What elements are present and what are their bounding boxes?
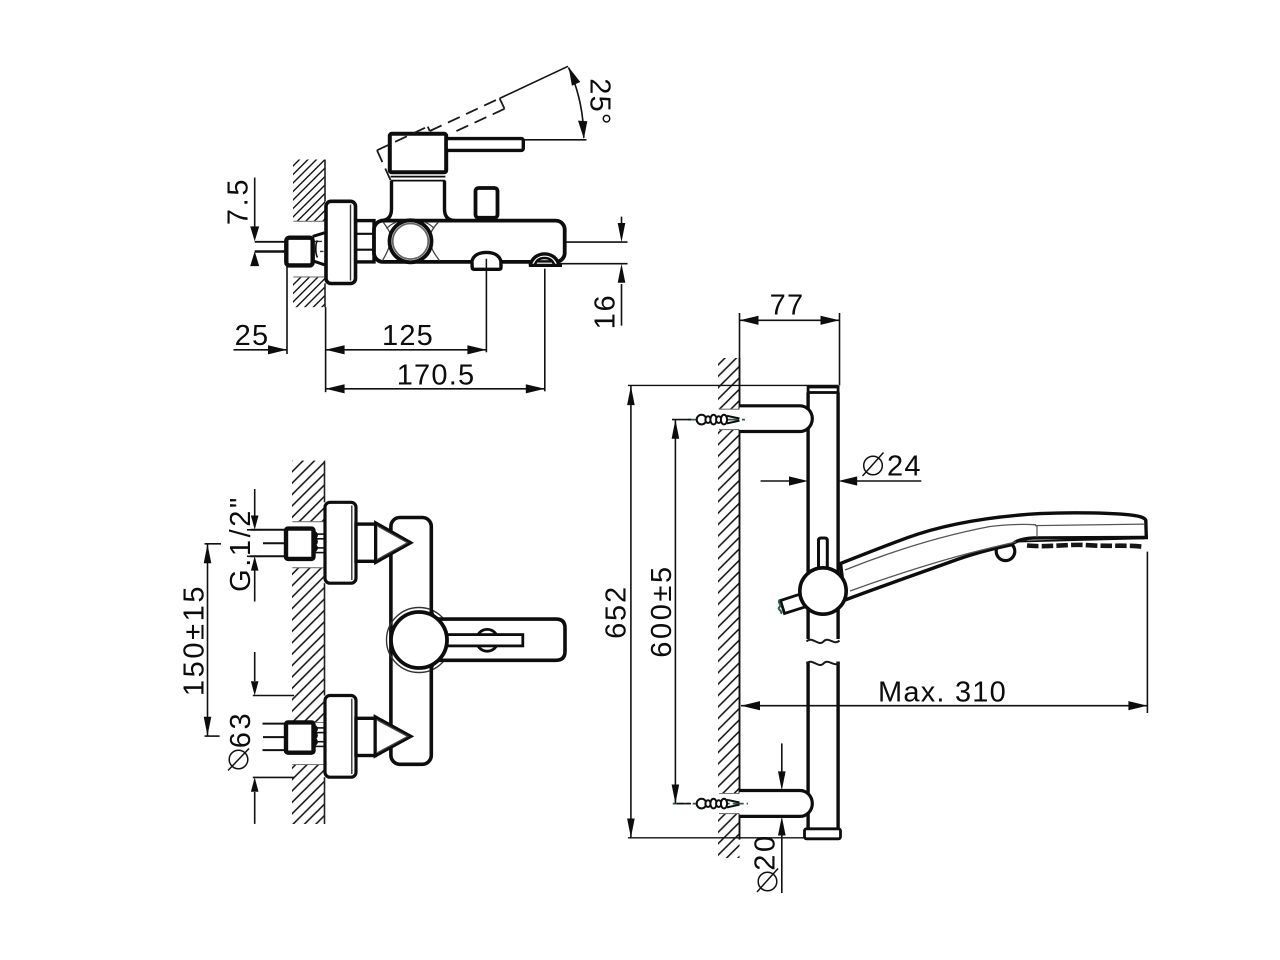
handle hub circle	[391, 612, 447, 668]
label 25deg	[584, 78, 616, 125]
label dia24	[863, 453, 884, 477]
svg-text:G.1/2": G.1/2"	[225, 495, 257, 592]
wall hole edges (side view)	[294, 221, 325, 277]
wall flange 2 (front)	[325, 696, 356, 778]
centerline supply pipe axis	[287, 250, 324, 252]
rail top cap	[808, 387, 838, 393]
svg-text:150±15: 150±15	[179, 584, 211, 696]
inlet cone 2	[375, 717, 411, 756]
centerline mixer body axis	[313, 240, 376, 242]
dim dia24	[761, 480, 922, 482]
sculpted waist thin lines	[383, 222, 440, 261]
spray face plate	[1016, 538, 1145, 546]
label 16	[590, 294, 622, 330]
dim 7.5	[254, 178, 256, 230]
label 600+-5	[646, 564, 678, 657]
slider lever stick	[819, 538, 828, 569]
dim 16	[560, 217, 628, 326]
lever stem	[445, 635, 523, 646]
handle neck	[381, 181, 456, 221]
bath spout outlet	[529, 254, 562, 266]
supply pipe 1	[251, 530, 309, 557]
svg-text:24: 24	[887, 451, 922, 483]
dim 652 extension top	[628, 384, 838, 386]
slider body circle	[800, 568, 846, 614]
svg-text:125: 125	[382, 320, 434, 352]
dim dia20	[781, 743, 783, 893]
outlet extension line	[485, 259, 487, 270]
top wall bracket arm	[740, 406, 813, 432]
diverter knob	[476, 188, 498, 222]
rail tube	[808, 393, 838, 829]
supply pipe 2	[263, 724, 309, 751]
holder stub (handle butt)	[781, 593, 808, 613]
eccentric cone	[313, 233, 325, 265]
hose outlet center line	[485, 259, 487, 270]
screw 1 axis	[688, 419, 748, 421]
svg-text:652: 652	[601, 585, 633, 639]
cartridge boss circles	[390, 220, 432, 262]
lever blade (front)	[432, 619, 565, 660]
union nut	[286, 238, 312, 266]
dim 652 extension bottom	[628, 837, 806, 839]
25 deg arc arrows	[569, 67, 588, 139]
thread lines 1	[315, 534, 325, 553]
escutcheon thin ring	[387, 608, 452, 673]
dim 600+-5	[672, 420, 691, 804]
blade-column fillets	[432, 608, 443, 672]
svg-text:Max. 310: Max. 310	[878, 677, 1007, 709]
head detail lines	[1035, 524, 1144, 537]
handle cap	[390, 134, 446, 173]
wall face line (rail view)	[739, 358, 741, 840]
dim 125	[326, 270, 487, 393]
label 150+-15	[179, 584, 211, 696]
label G.1/2"	[225, 495, 257, 592]
wall hatching (rail view)	[718, 358, 740, 858]
screw 2	[697, 799, 740, 809]
spray face hook loop	[996, 542, 1015, 561]
rail bottom cap	[805, 829, 841, 839]
25 deg dimension rays and arc	[500, 66, 587, 140]
inlet nipple 1	[356, 524, 376, 561]
svg-text:20: 20	[750, 833, 782, 870]
wall face line (front view)	[324, 461, 326, 824]
stub break squiggle	[779, 600, 782, 614]
body rear nipple block	[356, 221, 374, 262]
union nut 2 (front)	[286, 722, 317, 752]
dashed tilted handle (25 deg)	[377, 98, 505, 180]
lever screw ring	[476, 629, 498, 651]
lever bar	[446, 139, 523, 151]
wall flange 1 (front)	[325, 502, 356, 583]
dim 652	[630, 386, 632, 838]
dim Max310	[741, 552, 1147, 713]
neck collar rings	[391, 177, 446, 181]
label 652	[601, 585, 633, 639]
dim 170.5	[326, 269, 545, 392]
dim G.1/2	[247, 489, 263, 602]
hose outlet dome	[472, 252, 501, 269]
svg-text:170.5: 170.5	[397, 360, 476, 392]
wall flange (side view)	[326, 201, 356, 283]
label dia63	[225, 711, 257, 748]
svg-text:25: 25	[235, 320, 270, 352]
supply pipe stub	[255, 242, 287, 252]
svg-text:77: 77	[770, 290, 805, 322]
dim 25	[234, 267, 288, 355]
svg-text:7.5: 7.5	[223, 177, 255, 225]
wall hole edges (rail view)	[719, 409, 739, 813]
hand shower body	[841, 513, 1147, 600]
label dia20	[750, 833, 782, 870]
inlet nipple 2	[356, 718, 375, 755]
dim dia63	[253, 652, 294, 824]
mixer body column	[391, 518, 431, 765]
svg-text:16: 16	[590, 294, 622, 330]
wall hole edges (front view)	[292, 522, 324, 765]
label 7.5	[223, 177, 255, 225]
bottom wall bracket arm	[740, 791, 813, 817]
svg-text:600±5: 600±5	[646, 564, 678, 657]
hand shower highlight lines	[845, 524, 1036, 591]
wall hatching (front view)	[292, 461, 325, 824]
inlet cone 1	[376, 523, 411, 563]
screw 1	[697, 415, 740, 425]
screw 2 axis	[673, 803, 748, 805]
wall hatching (side view)	[293, 160, 325, 308]
dim 77	[740, 313, 840, 385]
svg-text:63: 63	[225, 711, 257, 748]
wall face line (side view)	[324, 160, 326, 308]
svg-text:25°: 25°	[584, 78, 616, 125]
dim 150+-15	[205, 544, 222, 736]
mixer body (side view)	[374, 221, 565, 262]
rail break symbol	[807, 640, 840, 665]
union nut 1 (front)	[286, 529, 317, 559]
thread lines 2	[315, 728, 325, 747]
